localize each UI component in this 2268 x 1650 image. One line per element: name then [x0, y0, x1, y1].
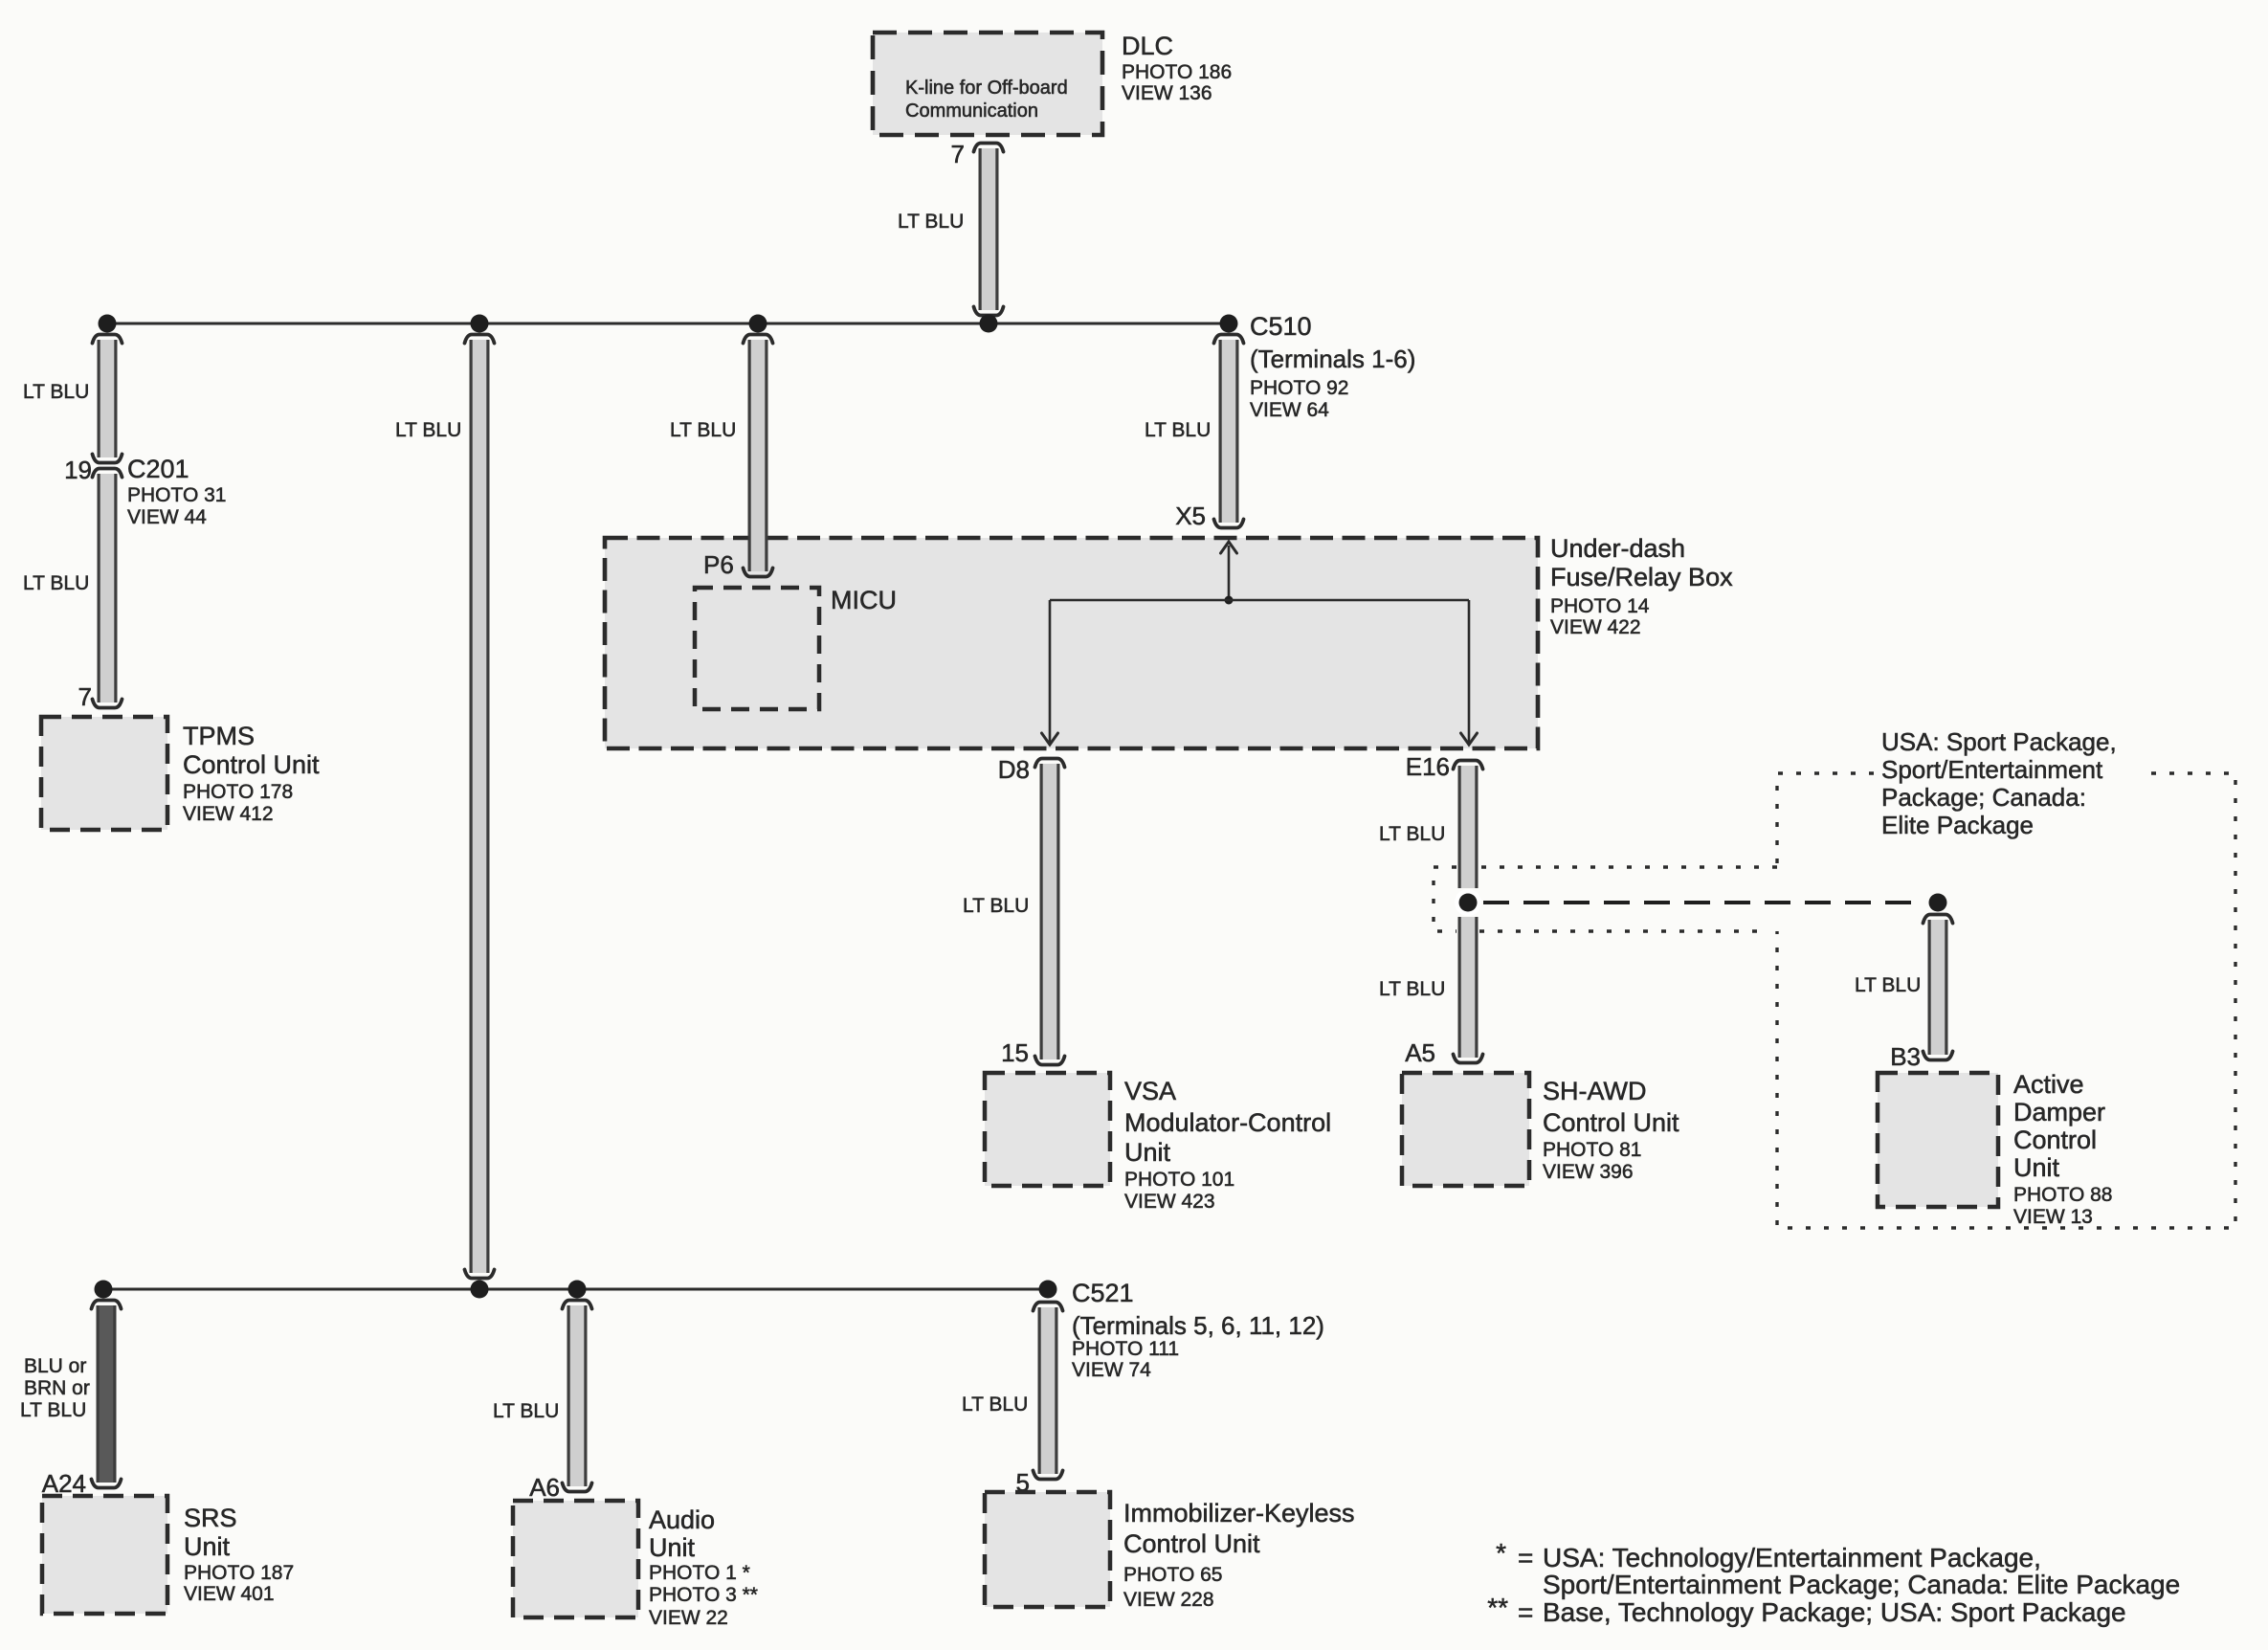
svg-text:PHOTO 1 *: PHOTO 1 * — [649, 1562, 750, 1584]
svg-text:LT BLU: LT BLU — [20, 1399, 86, 1421]
svg-text:(Terminals 5, 6, 11, 12): (Terminals 5, 6, 11, 12) — [1072, 1311, 1324, 1340]
svg-text:LT BLU: LT BLU — [1145, 419, 1211, 441]
label LT BLU (B3 wire) — [1855, 974, 1921, 996]
svg-text:LT BLU: LT BLU — [962, 1394, 1028, 1416]
label Audio Unit — [649, 1505, 758, 1629]
svg-text:PHOTO 186: PHOTO 186 — [1122, 61, 1232, 83]
svg-text:Active: Active — [2013, 1070, 2084, 1099]
wire B3 to Active Damper (LT BLU) — [1923, 915, 1953, 1060]
svg-text:X5: X5 — [1175, 502, 1206, 530]
svg-text:LT BLU: LT BLU — [23, 381, 89, 403]
svg-text:LT BLU: LT BLU — [395, 419, 461, 441]
svg-text:PHOTO 101: PHOTO 101 — [1124, 1169, 1234, 1191]
label USA: Sport Package option — [1881, 727, 2117, 839]
label Active Damper Control Unit — [2013, 1070, 2112, 1228]
wire E16 upper (LT BLU) — [1454, 761, 1483, 889]
svg-text:E16: E16 — [1406, 752, 1450, 781]
svg-text:VIEW 396: VIEW 396 — [1543, 1161, 1634, 1183]
pin D8 — [998, 755, 1030, 784]
svg-text:Control Unit: Control Unit — [1123, 1529, 1260, 1558]
svg-text:P6: P6 — [703, 550, 734, 579]
svg-text:Base, Technology Package; USA:: Base, Technology Package; USA: Sport Pac… — [1543, 1597, 2126, 1627]
node: internal junction — [1225, 596, 1234, 605]
internal wire to E16 with arrow — [1461, 600, 1478, 745]
svg-text:A6: A6 — [529, 1473, 560, 1502]
pin A5 — [1405, 1038, 1435, 1067]
internal wire to D8 with arrow — [1042, 600, 1058, 745]
svg-text:BLU or: BLU or — [24, 1355, 86, 1377]
svg-text:LT BLU: LT BLU — [1379, 823, 1445, 845]
svg-text:Damper: Damper — [2013, 1098, 2105, 1126]
wire A6 to Audio Unit (LT BLU) — [563, 1301, 592, 1492]
label BLU or BRN or LT BLU — [20, 1355, 90, 1421]
label SH-AWD Control Unit — [1543, 1077, 1679, 1183]
svg-text:VIEW 74: VIEW 74 — [1072, 1359, 1151, 1381]
node: bottom bus left end — [95, 1281, 113, 1299]
svg-text:Control: Control — [2013, 1126, 2097, 1154]
wire bus to P6/MICU (LT BLU) — [744, 335, 773, 577]
label Immobilizer-Keyless Control Unit — [1123, 1499, 1355, 1611]
label LT BLU (A5 wire) — [1379, 978, 1445, 1000]
node: junction E16/branch — [1455, 889, 1481, 916]
svg-text:VIEW 422: VIEW 422 — [1550, 616, 1641, 638]
svg-text:7: 7 — [951, 140, 965, 168]
svg-text:LT BLU: LT BLU — [670, 419, 736, 441]
pin B3 — [1890, 1042, 1921, 1071]
svg-text:PHOTO 178: PHOTO 178 — [183, 781, 293, 803]
svg-text:Audio: Audio — [649, 1505, 715, 1534]
svg-text:PHOTO 187: PHOTO 187 — [184, 1562, 294, 1584]
svg-text:LT BLU: LT BLU — [23, 572, 89, 594]
wire E16 lower to A5 (LT BLU) — [1454, 917, 1483, 1063]
svg-text:SRS: SRS — [184, 1504, 237, 1532]
svg-text:USA: Technology/Entertainment: USA: Technology/Entertainment Package, — [1543, 1543, 2041, 1572]
svg-text:BRN or: BRN or — [24, 1377, 90, 1399]
label MICU — [831, 586, 897, 614]
wire C510 to X5 (LT BLU) — [1214, 335, 1244, 528]
label LT BLU (D8 wire) — [963, 895, 1029, 917]
label LT BLU (lower left wire) — [23, 572, 89, 594]
node: junction DLC wire — [980, 315, 998, 333]
label TPMS Control Unit — [183, 722, 320, 825]
label SRS Unit — [184, 1504, 294, 1605]
wire bus to C201 (LT BLU) — [93, 335, 122, 463]
svg-text:Unit: Unit — [1124, 1138, 1171, 1167]
label VSA Modulator-Control Unit — [1124, 1077, 1331, 1213]
pin A24 — [42, 1469, 86, 1498]
svg-text:Sport/Entertainment: Sport/Entertainment — [1881, 755, 2103, 784]
legend ** note — [1487, 1593, 2125, 1627]
svg-text:Package; Canada:: Package; Canada: — [1881, 783, 2086, 812]
svg-text:VIEW 136: VIEW 136 — [1122, 82, 1212, 104]
svg-text:VIEW 64: VIEW 64 — [1250, 399, 1329, 421]
label LT BLU (upper left wire) — [23, 381, 89, 403]
pin 7 (DLC terminal) — [951, 140, 965, 168]
pin 5 (Immobilizer terminal) — [1016, 1468, 1030, 1497]
svg-text:PHOTO 65: PHOTO 65 — [1123, 1564, 1222, 1586]
svg-text:*: * — [1496, 1538, 1506, 1568]
label LT BLU (P6 wire) — [670, 419, 736, 441]
svg-text:Unit: Unit — [649, 1533, 696, 1562]
VSA Modulator-Control Unit box — [985, 1073, 1110, 1186]
wire C201 to TPMS (LT BLU) — [93, 469, 122, 708]
svg-text:PHOTO 14: PHOTO 14 — [1550, 595, 1650, 617]
svg-text:K-line for Off-board: K-line for Off-board — [905, 78, 1068, 99]
node: junction long wire bottom — [471, 1281, 489, 1299]
svg-text:Immobilizer-Keyless: Immobilizer-Keyless — [1123, 1499, 1355, 1527]
svg-text:**: ** — [1487, 1593, 1508, 1622]
svg-text:PHOTO 3 **: PHOTO 3 ** — [649, 1584, 758, 1606]
svg-text:7: 7 — [78, 682, 92, 711]
svg-text:(Terminals 1-6): (Terminals 1-6) — [1250, 345, 1415, 373]
DLC connector box (K-line for Off-board Communication) — [873, 33, 1102, 135]
svg-text:Elite Package: Elite Package — [1881, 811, 2034, 839]
option region dotted outline (USA: Sport Package...) — [1434, 773, 2235, 1228]
svg-text:15: 15 — [1001, 1038, 1029, 1067]
svg-text:=: = — [1518, 1597, 1533, 1627]
svg-text:PHOTO 88: PHOTO 88 — [2013, 1184, 2112, 1206]
internal wire X5 arrow — [1221, 542, 1237, 600]
label LT BLU (E16 upper) — [1379, 823, 1445, 845]
wire: bottom horizontal bus — [103, 1288, 1048, 1291]
label LT BLU (C510 wire) — [1145, 419, 1211, 441]
svg-text:Modulator-Control: Modulator-Control — [1124, 1108, 1331, 1137]
svg-text:LT BLU: LT BLU — [493, 1400, 559, 1422]
svg-text:C201: C201 — [127, 455, 189, 483]
svg-text:VIEW 401: VIEW 401 — [184, 1583, 275, 1605]
svg-text:PHOTO 31: PHOTO 31 — [127, 484, 226, 506]
node: bottom bus right end C521 — [1039, 1281, 1057, 1299]
svg-text:VSA: VSA — [1124, 1077, 1176, 1105]
node: branch end at B3 wire — [1929, 894, 1947, 912]
label LT BLU (DLC wire) — [898, 211, 964, 233]
label LT BLU (long wire) — [395, 419, 461, 441]
svg-text:LT BLU: LT BLU — [1855, 974, 1921, 996]
svg-text:MICU: MICU — [831, 586, 897, 614]
svg-text:Under-dash: Under-dash — [1550, 534, 1685, 563]
svg-text:PHOTO 111: PHOTO 111 — [1072, 1338, 1179, 1360]
svg-text:USA: Sport Package,: USA: Sport Package, — [1881, 727, 2117, 756]
wire A24 to SRS (BLU or BRN or LT BLU) — [92, 1301, 122, 1488]
svg-text:C521: C521 — [1072, 1279, 1134, 1307]
Active Damper Control Unit box — [1878, 1073, 1998, 1207]
internal wire horizontal — [1050, 599, 1469, 602]
connector C201 labels — [127, 455, 226, 528]
label Under-dash Fuse/Relay Box — [1550, 534, 1733, 638]
wire: long vertical bus-to-bus (LT BLU) — [465, 335, 495, 1279]
svg-text:VIEW 44: VIEW 44 — [127, 506, 207, 528]
Audio Unit box — [513, 1501, 638, 1617]
MICU inner box — [695, 588, 819, 709]
SH-AWD Control Unit box — [1402, 1073, 1529, 1186]
svg-text:D8: D8 — [998, 755, 1030, 784]
pin A6 — [529, 1473, 560, 1502]
pin 15 (VSA terminal) — [1001, 1038, 1029, 1067]
SRS Unit box — [42, 1496, 167, 1614]
label LT BLU (A6 wire) — [493, 1400, 559, 1422]
svg-text:VIEW 13: VIEW 13 — [2013, 1206, 2093, 1228]
node: junction P6 wire — [749, 315, 767, 333]
svg-text:B3: B3 — [1890, 1042, 1921, 1071]
label LT BLU (C521 wire) — [962, 1394, 1028, 1416]
svg-text:TPMS: TPMS — [183, 722, 255, 750]
svg-text:=: = — [1518, 1543, 1533, 1572]
node: bus right end C510 — [1220, 315, 1238, 333]
wire: dashed branch to Active Damper — [1483, 901, 1923, 904]
svg-text:Communication: Communication — [905, 100, 1038, 122]
Immobilizer-Keyless Control Unit box — [985, 1492, 1110, 1607]
wire DLC to bus (LT BLU) — [974, 144, 1004, 316]
legend * note — [1496, 1538, 2180, 1599]
node: junction A6 wire — [568, 1281, 587, 1299]
svg-text:C510: C510 — [1250, 312, 1312, 341]
svg-text:A5: A5 — [1405, 1038, 1435, 1067]
pin 19 (C201) — [64, 456, 92, 484]
svg-text:Control Unit: Control Unit — [183, 750, 320, 779]
svg-text:Control Unit: Control Unit — [1543, 1108, 1679, 1137]
svg-text:VIEW 423: VIEW 423 — [1124, 1191, 1215, 1213]
wire C521 to Immobilizer (LT BLU) — [1034, 1303, 1063, 1480]
wire: top horizontal bus — [107, 323, 1229, 325]
svg-text:Fuse/Relay Box: Fuse/Relay Box — [1550, 563, 1733, 591]
wire D8 to VSA (LT BLU) — [1035, 759, 1065, 1065]
svg-text:Sport/Entertainment Package; C: Sport/Entertainment Package; Canada: Eli… — [1543, 1570, 2180, 1599]
svg-text:VIEW 228: VIEW 228 — [1123, 1589, 1214, 1611]
svg-text:PHOTO 81: PHOTO 81 — [1543, 1139, 1641, 1161]
svg-text:A24: A24 — [42, 1469, 86, 1498]
label C521 (Terminals 5, 6, 11, 12) — [1072, 1279, 1324, 1381]
svg-text:DLC: DLC — [1122, 32, 1173, 60]
svg-text:SH-AWD: SH-AWD — [1543, 1077, 1647, 1105]
svg-text:PHOTO 92: PHOTO 92 — [1250, 377, 1348, 399]
svg-text:19: 19 — [64, 456, 92, 484]
pin 7 (TPMS terminal) — [78, 682, 92, 711]
svg-text:Unit: Unit — [2013, 1153, 2060, 1182]
svg-text:VIEW 22: VIEW 22 — [649, 1607, 728, 1629]
label DLC / PHOTO 186 / VIEW 136 — [1122, 32, 1232, 104]
svg-text:LT BLU: LT BLU — [898, 211, 964, 233]
svg-text:Unit: Unit — [184, 1532, 231, 1561]
pin X5 — [1175, 502, 1206, 530]
node: junction long wire — [471, 315, 489, 333]
Under-dash Fuse/Relay Box — [605, 538, 1538, 748]
svg-text:VIEW 412: VIEW 412 — [183, 803, 274, 825]
svg-text:LT BLU: LT BLU — [963, 895, 1029, 917]
pin P6 — [703, 550, 734, 579]
svg-text:LT BLU: LT BLU — [1379, 978, 1445, 1000]
node: bus left end — [99, 315, 117, 333]
TPMS Control Unit box — [41, 717, 167, 830]
pin E16 — [1406, 752, 1450, 781]
label C510 (Terminals 1-6) — [1250, 312, 1415, 421]
